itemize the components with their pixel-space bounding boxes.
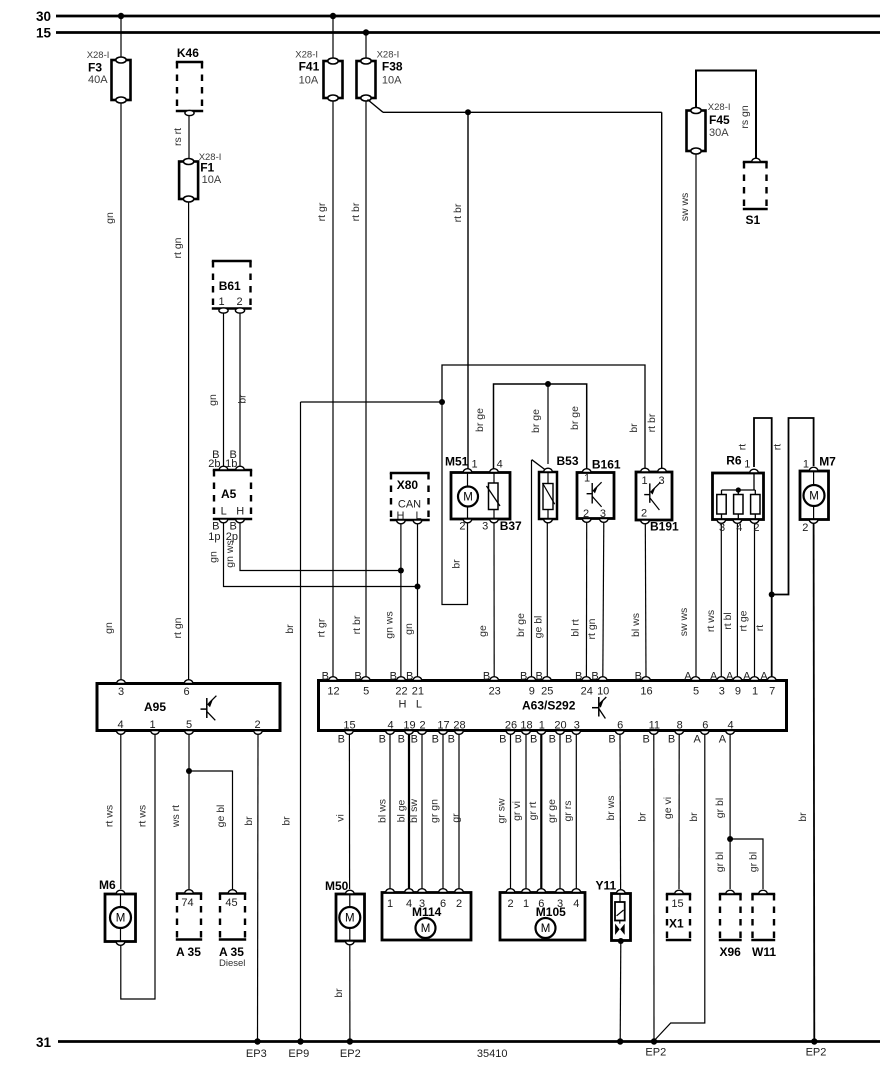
svg-text:F3: F3 bbox=[88, 60, 102, 74]
svg-text:gn ws: gn ws bbox=[224, 540, 236, 567]
svg-text:B: B bbox=[411, 734, 418, 746]
svg-text:rt: rt bbox=[754, 625, 766, 631]
svg-text:gn: gn bbox=[207, 394, 219, 406]
svg-text:5: 5 bbox=[693, 686, 699, 698]
svg-text:M51: M51 bbox=[445, 455, 469, 469]
svg-text:ge bl: ge bl bbox=[533, 616, 545, 639]
svg-text:B: B bbox=[398, 734, 405, 746]
svg-text:L: L bbox=[416, 699, 422, 711]
svg-text:A63/S292: A63/S292 bbox=[522, 699, 576, 713]
svg-text:K46: K46 bbox=[177, 46, 199, 60]
svg-text:gr rs: gr rs bbox=[562, 801, 574, 822]
svg-text:8: 8 bbox=[677, 720, 683, 732]
svg-text:1: 1 bbox=[387, 898, 393, 910]
svg-text:9: 9 bbox=[529, 686, 535, 698]
svg-text:F1: F1 bbox=[200, 161, 214, 175]
svg-text:br ge: br ge bbox=[569, 406, 581, 430]
svg-text:4: 4 bbox=[497, 458, 503, 470]
svg-text:EP2: EP2 bbox=[806, 1047, 827, 1059]
svg-text:M: M bbox=[541, 923, 551, 935]
svg-text:ws rt: ws rt bbox=[170, 805, 182, 828]
svg-text:rt gr: rt gr bbox=[316, 618, 328, 637]
svg-text:H: H bbox=[236, 506, 244, 518]
svg-text:3: 3 bbox=[574, 720, 580, 732]
svg-text:1: 1 bbox=[219, 296, 225, 308]
svg-text:X1: X1 bbox=[669, 917, 684, 931]
svg-text:gr vi: gr vi bbox=[511, 801, 523, 821]
svg-text:gr bl: gr bl bbox=[714, 852, 726, 872]
svg-text:17: 17 bbox=[437, 720, 449, 732]
svg-text:rt: rt bbox=[772, 444, 784, 450]
svg-text:1: 1 bbox=[472, 458, 478, 470]
svg-text:A: A bbox=[684, 671, 692, 683]
svg-text:ge bl: ge bl bbox=[215, 805, 227, 828]
svg-text:B: B bbox=[591, 671, 598, 683]
svg-text:rt ws: rt ws bbox=[705, 610, 717, 632]
svg-text:B: B bbox=[515, 734, 522, 746]
svg-text:ge vi: ge vi bbox=[662, 797, 674, 819]
svg-text:br ge: br ge bbox=[474, 408, 486, 432]
svg-text:rt gr: rt gr bbox=[316, 202, 328, 221]
svg-text:sw ws: sw ws bbox=[678, 608, 690, 637]
svg-text:gr: gr bbox=[450, 813, 462, 823]
svg-text:br ge: br ge bbox=[515, 613, 527, 637]
svg-text:3: 3 bbox=[600, 508, 606, 520]
svg-text:M: M bbox=[463, 492, 473, 504]
svg-text:B: B bbox=[530, 734, 537, 746]
svg-text:rt br: rt br bbox=[452, 203, 464, 222]
svg-text:EP2: EP2 bbox=[645, 1047, 666, 1059]
svg-text:A5: A5 bbox=[221, 487, 237, 501]
svg-text:B: B bbox=[535, 671, 542, 683]
svg-text:rt bl: rt bl bbox=[722, 612, 734, 630]
svg-text:2: 2 bbox=[802, 522, 808, 534]
svg-text:2b: 2b bbox=[208, 458, 220, 470]
svg-text:B: B bbox=[608, 734, 615, 746]
svg-text:30A: 30A bbox=[709, 127, 729, 139]
svg-text:br ws: br ws bbox=[605, 795, 617, 820]
svg-text:20: 20 bbox=[554, 720, 566, 732]
svg-text:F45: F45 bbox=[709, 113, 730, 127]
svg-text:EP3: EP3 bbox=[246, 1048, 267, 1060]
svg-text:bl ws: bl ws bbox=[630, 613, 642, 637]
svg-text:W11: W11 bbox=[752, 945, 776, 959]
svg-text:M50: M50 bbox=[325, 879, 349, 893]
svg-text:40A: 40A bbox=[88, 74, 108, 86]
svg-text:2: 2 bbox=[237, 296, 243, 308]
svg-text:br: br bbox=[284, 624, 296, 634]
svg-text:3: 3 bbox=[118, 686, 124, 698]
svg-text:35410: 35410 bbox=[477, 1048, 508, 1060]
svg-text:br: br bbox=[636, 812, 648, 822]
svg-text:4: 4 bbox=[728, 720, 734, 732]
svg-text:R6: R6 bbox=[726, 454, 742, 468]
svg-text:B: B bbox=[448, 734, 455, 746]
svg-text:5: 5 bbox=[363, 686, 369, 698]
svg-text:B: B bbox=[432, 734, 439, 746]
svg-text:bl ws: bl ws bbox=[377, 799, 389, 823]
svg-text:2: 2 bbox=[456, 898, 462, 910]
svg-text:10A: 10A bbox=[382, 74, 402, 86]
svg-text:23: 23 bbox=[489, 686, 501, 698]
svg-text:B: B bbox=[575, 671, 582, 683]
svg-text:B: B bbox=[338, 734, 345, 746]
svg-text:30: 30 bbox=[36, 9, 51, 24]
svg-text:B61: B61 bbox=[219, 279, 241, 293]
svg-text:rt ws: rt ws bbox=[104, 805, 116, 827]
svg-text:br: br bbox=[628, 423, 640, 433]
svg-text:L: L bbox=[221, 506, 227, 518]
svg-text:24: 24 bbox=[581, 686, 593, 698]
svg-text:br: br bbox=[243, 816, 255, 826]
svg-text:H: H bbox=[397, 510, 405, 522]
svg-text:gr ge: gr ge bbox=[546, 799, 558, 823]
svg-text:45: 45 bbox=[225, 897, 237, 909]
svg-text:B: B bbox=[668, 734, 675, 746]
svg-text:A: A bbox=[710, 671, 718, 683]
svg-text:X96: X96 bbox=[720, 945, 742, 959]
svg-text:3: 3 bbox=[482, 520, 488, 532]
svg-text:B37: B37 bbox=[500, 519, 522, 533]
svg-text:A: A bbox=[743, 671, 751, 683]
svg-text:A: A bbox=[760, 671, 768, 683]
svg-text:M105: M105 bbox=[536, 905, 566, 919]
svg-text:4: 4 bbox=[573, 898, 579, 910]
svg-text:gr gn: gr gn bbox=[429, 799, 441, 823]
svg-text:F38: F38 bbox=[382, 60, 403, 74]
svg-text:2: 2 bbox=[419, 720, 425, 732]
svg-text:1: 1 bbox=[641, 475, 647, 487]
svg-text:4: 4 bbox=[736, 522, 742, 534]
svg-text:7: 7 bbox=[769, 686, 775, 698]
svg-text:1p: 1p bbox=[208, 531, 220, 543]
svg-text:10A: 10A bbox=[202, 174, 222, 186]
svg-text:A 35: A 35 bbox=[219, 945, 244, 959]
svg-text:H: H bbox=[399, 699, 407, 711]
svg-text:sw ws: sw ws bbox=[679, 193, 691, 222]
svg-text:M: M bbox=[421, 923, 431, 935]
svg-text:1: 1 bbox=[523, 898, 529, 910]
svg-text:B: B bbox=[520, 671, 527, 683]
svg-text:15: 15 bbox=[671, 898, 683, 910]
svg-text:rt br: rt br bbox=[350, 202, 362, 221]
svg-text:rt br: rt br bbox=[646, 413, 658, 432]
svg-text:B: B bbox=[390, 671, 397, 683]
svg-text:vi: vi bbox=[335, 814, 347, 822]
svg-text:rt: rt bbox=[737, 444, 749, 450]
svg-text:F41: F41 bbox=[299, 60, 320, 74]
svg-text:Diesel: Diesel bbox=[219, 958, 245, 969]
svg-text:1: 1 bbox=[149, 719, 155, 731]
svg-text:B: B bbox=[642, 734, 649, 746]
svg-text:1: 1 bbox=[744, 459, 750, 471]
svg-text:M: M bbox=[345, 913, 355, 925]
svg-text:1: 1 bbox=[752, 686, 758, 698]
svg-text:rt br: rt br bbox=[351, 615, 363, 634]
svg-text:S1: S1 bbox=[746, 213, 761, 227]
svg-text:rt gn: rt gn bbox=[586, 618, 598, 639]
svg-text:25: 25 bbox=[541, 686, 553, 698]
svg-text:6: 6 bbox=[702, 720, 708, 732]
svg-text:rt gn: rt gn bbox=[172, 237, 184, 258]
svg-text:10: 10 bbox=[597, 686, 609, 698]
svg-text:B: B bbox=[635, 671, 642, 683]
svg-text:1: 1 bbox=[539, 720, 545, 732]
svg-text:gr bl: gr bl bbox=[714, 798, 726, 818]
svg-text:bl ge: bl ge bbox=[396, 799, 408, 822]
svg-text:5: 5 bbox=[186, 719, 192, 731]
svg-text:M: M bbox=[116, 913, 126, 925]
svg-text:A: A bbox=[693, 734, 701, 746]
svg-text:gn: gn bbox=[403, 623, 415, 635]
svg-text:br: br bbox=[237, 394, 249, 404]
svg-text:9: 9 bbox=[735, 686, 741, 698]
svg-text:A: A bbox=[719, 734, 727, 746]
svg-text:X28-I: X28-I bbox=[708, 102, 731, 113]
svg-text:B: B bbox=[565, 734, 572, 746]
svg-text:B53: B53 bbox=[557, 454, 579, 468]
svg-text:rt ge: rt ge bbox=[738, 610, 750, 631]
svg-text:B: B bbox=[354, 671, 361, 683]
svg-text:br: br bbox=[688, 812, 700, 822]
svg-text:15: 15 bbox=[36, 26, 52, 41]
svg-text:B: B bbox=[379, 734, 386, 746]
svg-text:L: L bbox=[415, 510, 421, 522]
svg-text:gn ws: gn ws bbox=[384, 611, 396, 638]
svg-text:3: 3 bbox=[658, 475, 664, 487]
svg-text:M114: M114 bbox=[412, 905, 442, 919]
svg-text:X80: X80 bbox=[397, 478, 419, 492]
svg-text:B191: B191 bbox=[650, 520, 679, 534]
svg-text:rt ws: rt ws bbox=[137, 805, 149, 827]
svg-text:15: 15 bbox=[343, 720, 355, 732]
svg-text:gr sw: gr sw bbox=[496, 798, 508, 824]
svg-text:2: 2 bbox=[254, 719, 260, 731]
svg-text:1b: 1b bbox=[225, 458, 237, 470]
svg-text:1: 1 bbox=[803, 459, 809, 471]
svg-text:ge: ge bbox=[477, 625, 489, 637]
svg-text:2: 2 bbox=[753, 522, 759, 534]
svg-text:22: 22 bbox=[395, 686, 407, 698]
svg-text:10A: 10A bbox=[299, 74, 319, 86]
svg-text:A95: A95 bbox=[144, 700, 166, 714]
svg-text:19: 19 bbox=[403, 720, 415, 732]
svg-text:Y11: Y11 bbox=[596, 879, 617, 893]
svg-text:gn: gn bbox=[103, 622, 115, 634]
svg-text:21: 21 bbox=[412, 686, 424, 698]
svg-text:6: 6 bbox=[617, 720, 623, 732]
svg-text:12: 12 bbox=[327, 686, 339, 698]
svg-text:rt gn: rt gn bbox=[172, 617, 184, 638]
svg-text:4: 4 bbox=[387, 720, 393, 732]
svg-text:74: 74 bbox=[181, 897, 193, 909]
svg-text:3: 3 bbox=[719, 686, 725, 698]
svg-text:EP9: EP9 bbox=[288, 1048, 309, 1060]
svg-text:3: 3 bbox=[719, 522, 725, 534]
svg-text:B: B bbox=[499, 734, 506, 746]
svg-text:br: br bbox=[797, 812, 809, 822]
svg-text:M6: M6 bbox=[99, 878, 116, 892]
svg-text:1: 1 bbox=[584, 473, 590, 485]
svg-text:31: 31 bbox=[36, 1035, 52, 1050]
svg-text:br: br bbox=[451, 559, 463, 569]
svg-text:EP2: EP2 bbox=[340, 1048, 361, 1060]
svg-text:18: 18 bbox=[520, 720, 532, 732]
svg-text:rs rt: rs rt bbox=[172, 128, 184, 146]
svg-text:gr rt: gr rt bbox=[527, 802, 539, 821]
svg-text:B: B bbox=[483, 671, 490, 683]
svg-text:br ge: br ge bbox=[530, 409, 542, 433]
svg-text:bl rt: bl rt bbox=[570, 619, 582, 637]
svg-text:2: 2 bbox=[583, 508, 589, 520]
svg-text:A 35: A 35 bbox=[176, 945, 201, 959]
svg-text:br: br bbox=[281, 816, 293, 826]
svg-text:bl sw: bl sw bbox=[408, 799, 420, 823]
svg-text:28: 28 bbox=[453, 720, 465, 732]
svg-text:br: br bbox=[333, 988, 345, 998]
svg-text:2: 2 bbox=[507, 898, 513, 910]
svg-text:26: 26 bbox=[505, 720, 517, 732]
svg-text:gn: gn bbox=[208, 551, 220, 563]
svg-text:gr bl: gr bl bbox=[747, 852, 759, 872]
svg-text:B: B bbox=[322, 671, 329, 683]
svg-text:M7: M7 bbox=[819, 455, 836, 469]
svg-text:2: 2 bbox=[459, 520, 465, 532]
svg-text:11: 11 bbox=[649, 720, 660, 732]
svg-text:B: B bbox=[406, 671, 413, 683]
svg-text:16: 16 bbox=[640, 686, 652, 698]
svg-text:6: 6 bbox=[183, 686, 189, 698]
svg-text:M: M bbox=[809, 491, 819, 503]
svg-text:CAN: CAN bbox=[398, 499, 421, 511]
svg-text:B161: B161 bbox=[592, 458, 621, 472]
svg-text:B: B bbox=[549, 734, 556, 746]
svg-text:A: A bbox=[726, 671, 734, 683]
svg-text:rs gn: rs gn bbox=[739, 105, 751, 129]
svg-text:2: 2 bbox=[641, 508, 647, 520]
svg-text:4: 4 bbox=[117, 719, 123, 731]
svg-text:gn: gn bbox=[104, 212, 116, 224]
